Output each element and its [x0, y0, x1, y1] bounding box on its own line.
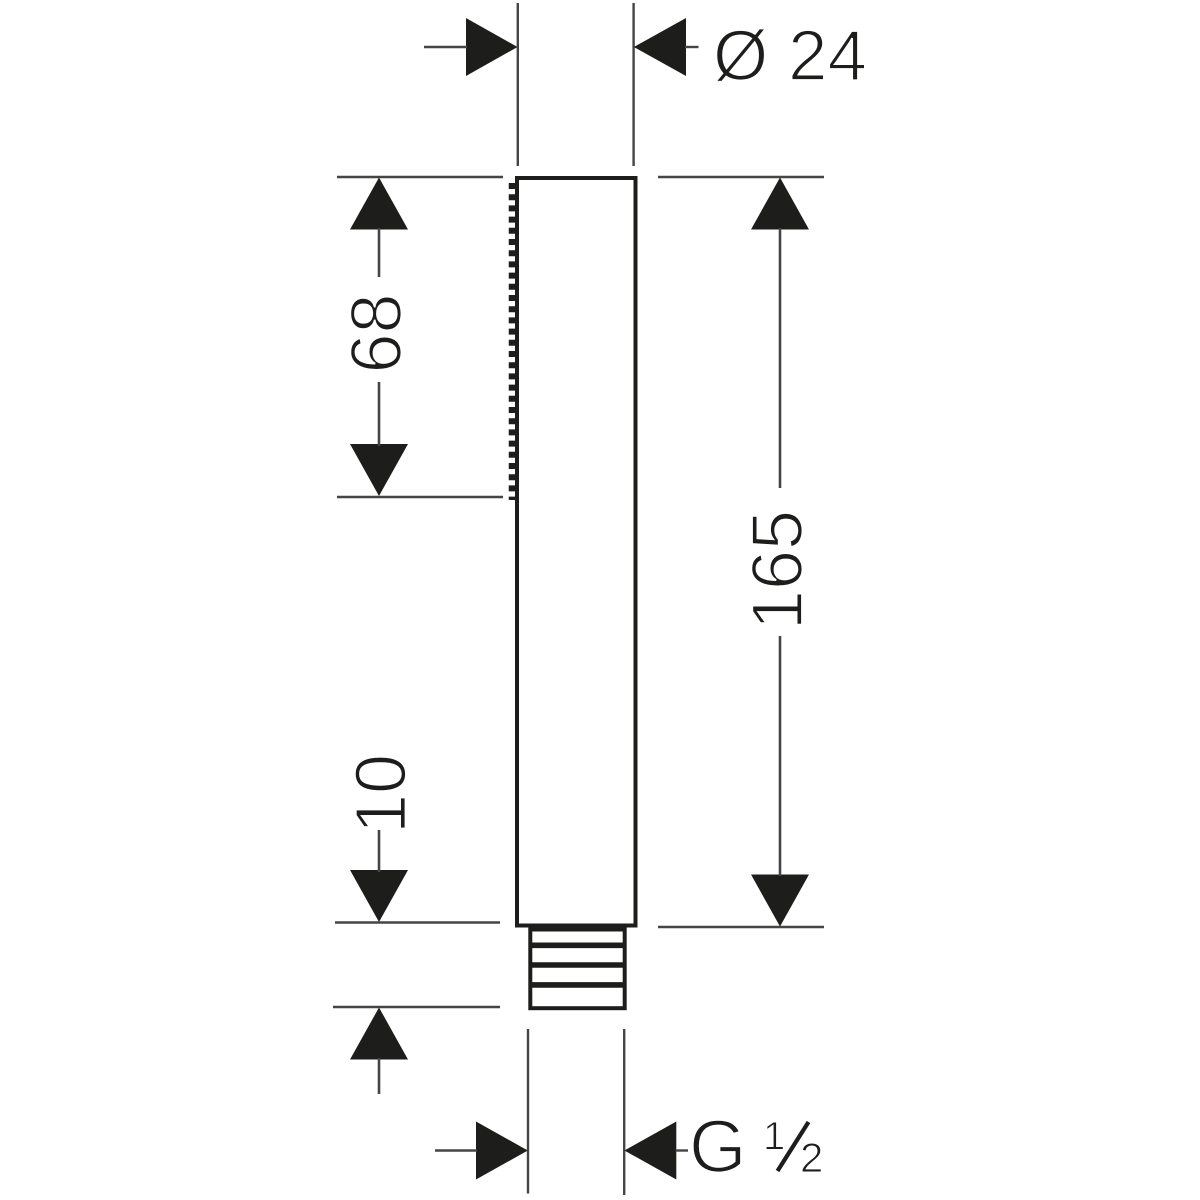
165 up arrow [751, 178, 809, 489]
thread stripe 3 [530, 982, 625, 988]
svg-text:10: 10 [342, 754, 422, 834]
G1/2 right arrow [624, 1122, 688, 1180]
svg-text:1: 1 [763, 1115, 785, 1159]
extension line top-right of Ø24 [632, 3, 634, 166]
G1/2 label [689, 1105, 823, 1188]
G1/2 left extension line [527, 1029, 529, 1194]
10 upper extension line (body bottom) [335, 921, 500, 923]
thread connector outline [530, 930, 624, 1009]
G1/2 right extension line [623, 1029, 625, 1195]
thread stripe 2 [530, 962, 625, 968]
68 bottom extension line [337, 496, 503, 498]
Ø24 right arrow [634, 18, 699, 76]
svg-text:2: 2 [800, 1134, 823, 1181]
10 down arrow [350, 830, 408, 922]
165 down arrow [751, 636, 809, 927]
165 bottom extension line [658, 926, 824, 928]
Ø24 left arrow [424, 18, 518, 76]
10 lower extension line (connector bottom) [333, 1006, 500, 1008]
thread stripe 1 [530, 942, 625, 948]
G1/2 left arrow [435, 1122, 528, 1180]
68 down arrow [350, 382, 408, 496]
svg-text:G: G [689, 1105, 747, 1188]
extension line top-left of Ø24 [517, 3, 519, 166]
68 top extension line [337, 176, 503, 178]
10 up arrow (below connector line) [350, 1008, 408, 1095]
svg-text:Ø 24: Ø 24 [713, 17, 867, 96]
68 up arrow [350, 178, 408, 278]
shower body outline [517, 178, 636, 926]
165 top extension line [658, 176, 824, 178]
svg-text:165: 165 [738, 510, 818, 630]
svg-text:68: 68 [337, 293, 417, 373]
spray face teeth on left edge [509, 183, 517, 500]
